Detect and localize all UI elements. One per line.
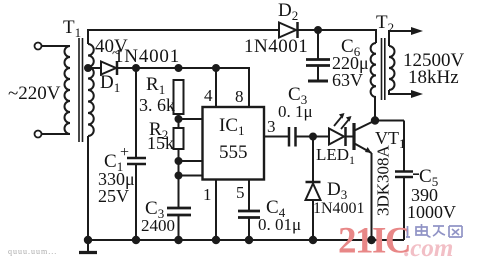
svg-text:LED1: LED1: [316, 145, 355, 167]
capacitor C4: [238, 211, 260, 240]
wire C5 branch top: [403, 121, 405, 172]
wire R2 bottom to C2 top: [178, 149, 180, 208]
node ground rail C4: [246, 237, 252, 243]
node pin4 tap: [213, 65, 219, 71]
wire pin 6: [179, 160, 203, 162]
svg-text:R1: R1: [146, 74, 165, 97]
capacitor C2 2400: [167, 208, 191, 240]
svg-text:D3: D3: [327, 179, 347, 202]
node ground rail T1: [85, 237, 91, 243]
svg-text:8: 8: [235, 87, 244, 106]
node ground rail C1: [133, 237, 139, 243]
wire rectified rail from D1 cathode to pin8 drop: [117, 68, 249, 107]
wire C6 branch: [317, 30, 319, 60]
label 40V: [95, 36, 128, 62]
svg-text:63V: 63V: [332, 70, 363, 90]
wire collector node to C5: [375, 120, 404, 122]
wire pin 1 to ground rail: [215, 180, 217, 241]
node ground rail pin1: [213, 237, 219, 243]
node pin2 tap: [176, 173, 182, 179]
capacitor C3 coupling: [289, 127, 296, 147]
svg-text:3. 6k: 3. 6k: [139, 95, 175, 115]
transformer T1: [35, 38, 94, 142]
LED LED1: [329, 113, 352, 146]
wire emitter to ground rail: [371, 153, 373, 240]
svg-text:0. 1μ: 0. 1μ: [278, 102, 313, 121]
wire T2 secondary top output with arrow: [389, 27, 423, 46]
wire T2 secondary bottom output with arrow: [389, 90, 423, 98]
node R1 R2 junction pin7: [176, 116, 182, 122]
diode D2: [279, 22, 298, 38]
svg-text:5: 5: [236, 183, 245, 202]
svg-text:15k: 15k: [147, 133, 174, 153]
transformer T2: [371, 38, 395, 100]
diode D1: [101, 61, 117, 75]
capacitor C1: [127, 158, 146, 164]
node LED D3 junction: [310, 134, 316, 140]
svg-text:25V: 25V: [98, 186, 129, 206]
svg-text:IC1: IC1: [219, 115, 245, 138]
svg-text:3DK308A: 3DK308A: [374, 144, 393, 216]
transistor VT1: [354, 121, 375, 154]
wire collector node to T2 primary bottom: [374, 97, 376, 121]
watermark dianziwang blue glyphs: [406, 224, 462, 237]
wire LED cathode to base: [346, 136, 353, 138]
diode D3: [306, 182, 321, 240]
svg-text:1000V: 1000V: [407, 202, 456, 222]
node R1 top: [176, 65, 182, 71]
svg-text:D2: D2: [278, 0, 298, 23]
capacitor C6: [306, 60, 330, 82]
node ground rail D3: [310, 237, 316, 243]
resistor R2: [174, 128, 184, 149]
node D1 tap on T1 secondary: [85, 65, 91, 71]
wire C1 branch lower: [135, 164, 137, 240]
svg-text:555: 555: [219, 142, 248, 163]
svg-text:quuu.uum...: quuu.uum...: [8, 247, 57, 256]
svg-text:1: 1: [203, 185, 212, 204]
wire T1 secondary bottom to ground rail: [87, 136, 89, 240]
wire D1 anode: [88, 67, 101, 69]
wire top rail from D2 cathode to T2 primary top: [298, 30, 376, 43]
resistor R1: [174, 80, 184, 128]
svg-text:21IC: 21IC: [338, 221, 410, 262]
capacitor C5: [395, 172, 419, 241]
node ground rail emitter: [368, 237, 374, 243]
node collector junction: [372, 117, 378, 123]
node C6 tap: [315, 27, 321, 33]
node pin6 tap: [176, 158, 182, 164]
svg-text:3: 3: [267, 117, 276, 136]
svg-text:2400: 2400: [141, 216, 175, 235]
wire ground rail: [88, 239, 404, 241]
wire C3 to LED node: [296, 136, 330, 138]
svg-text:T1: T1: [63, 17, 81, 40]
svg-text:0. 01μ: 0. 01μ: [258, 215, 301, 234]
wire D3 branch top: [312, 137, 314, 183]
wire pin 2: [179, 175, 203, 177]
svg-text:1N4001: 1N4001: [313, 200, 365, 217]
wire pin 7: [179, 118, 203, 120]
wire top rail from T1 secondary top to D2 anode: [88, 30, 278, 44]
svg-text:D1: D1: [100, 72, 120, 95]
svg-text:18kHz: 18kHz: [408, 67, 459, 88]
node C1 tap: [133, 65, 139, 71]
wire pin 4 drop: [215, 68, 217, 107]
svg-text:1N4001: 1N4001: [114, 46, 180, 67]
svg-text:1N4001: 1N4001: [244, 36, 308, 57]
node ground rail C2: [175, 237, 181, 243]
wire C1 branch upper: [135, 68, 137, 158]
svg-text:.com: .com: [404, 235, 453, 262]
wire pin 3 out: [264, 136, 289, 138]
wire pin 5 to C4: [248, 180, 250, 212]
ground: [79, 240, 97, 253]
svg-text:4: 4: [204, 86, 213, 105]
svg-text:~220V: ~220V: [8, 83, 61, 104]
op-amp IC1 555 box: [203, 107, 265, 180]
